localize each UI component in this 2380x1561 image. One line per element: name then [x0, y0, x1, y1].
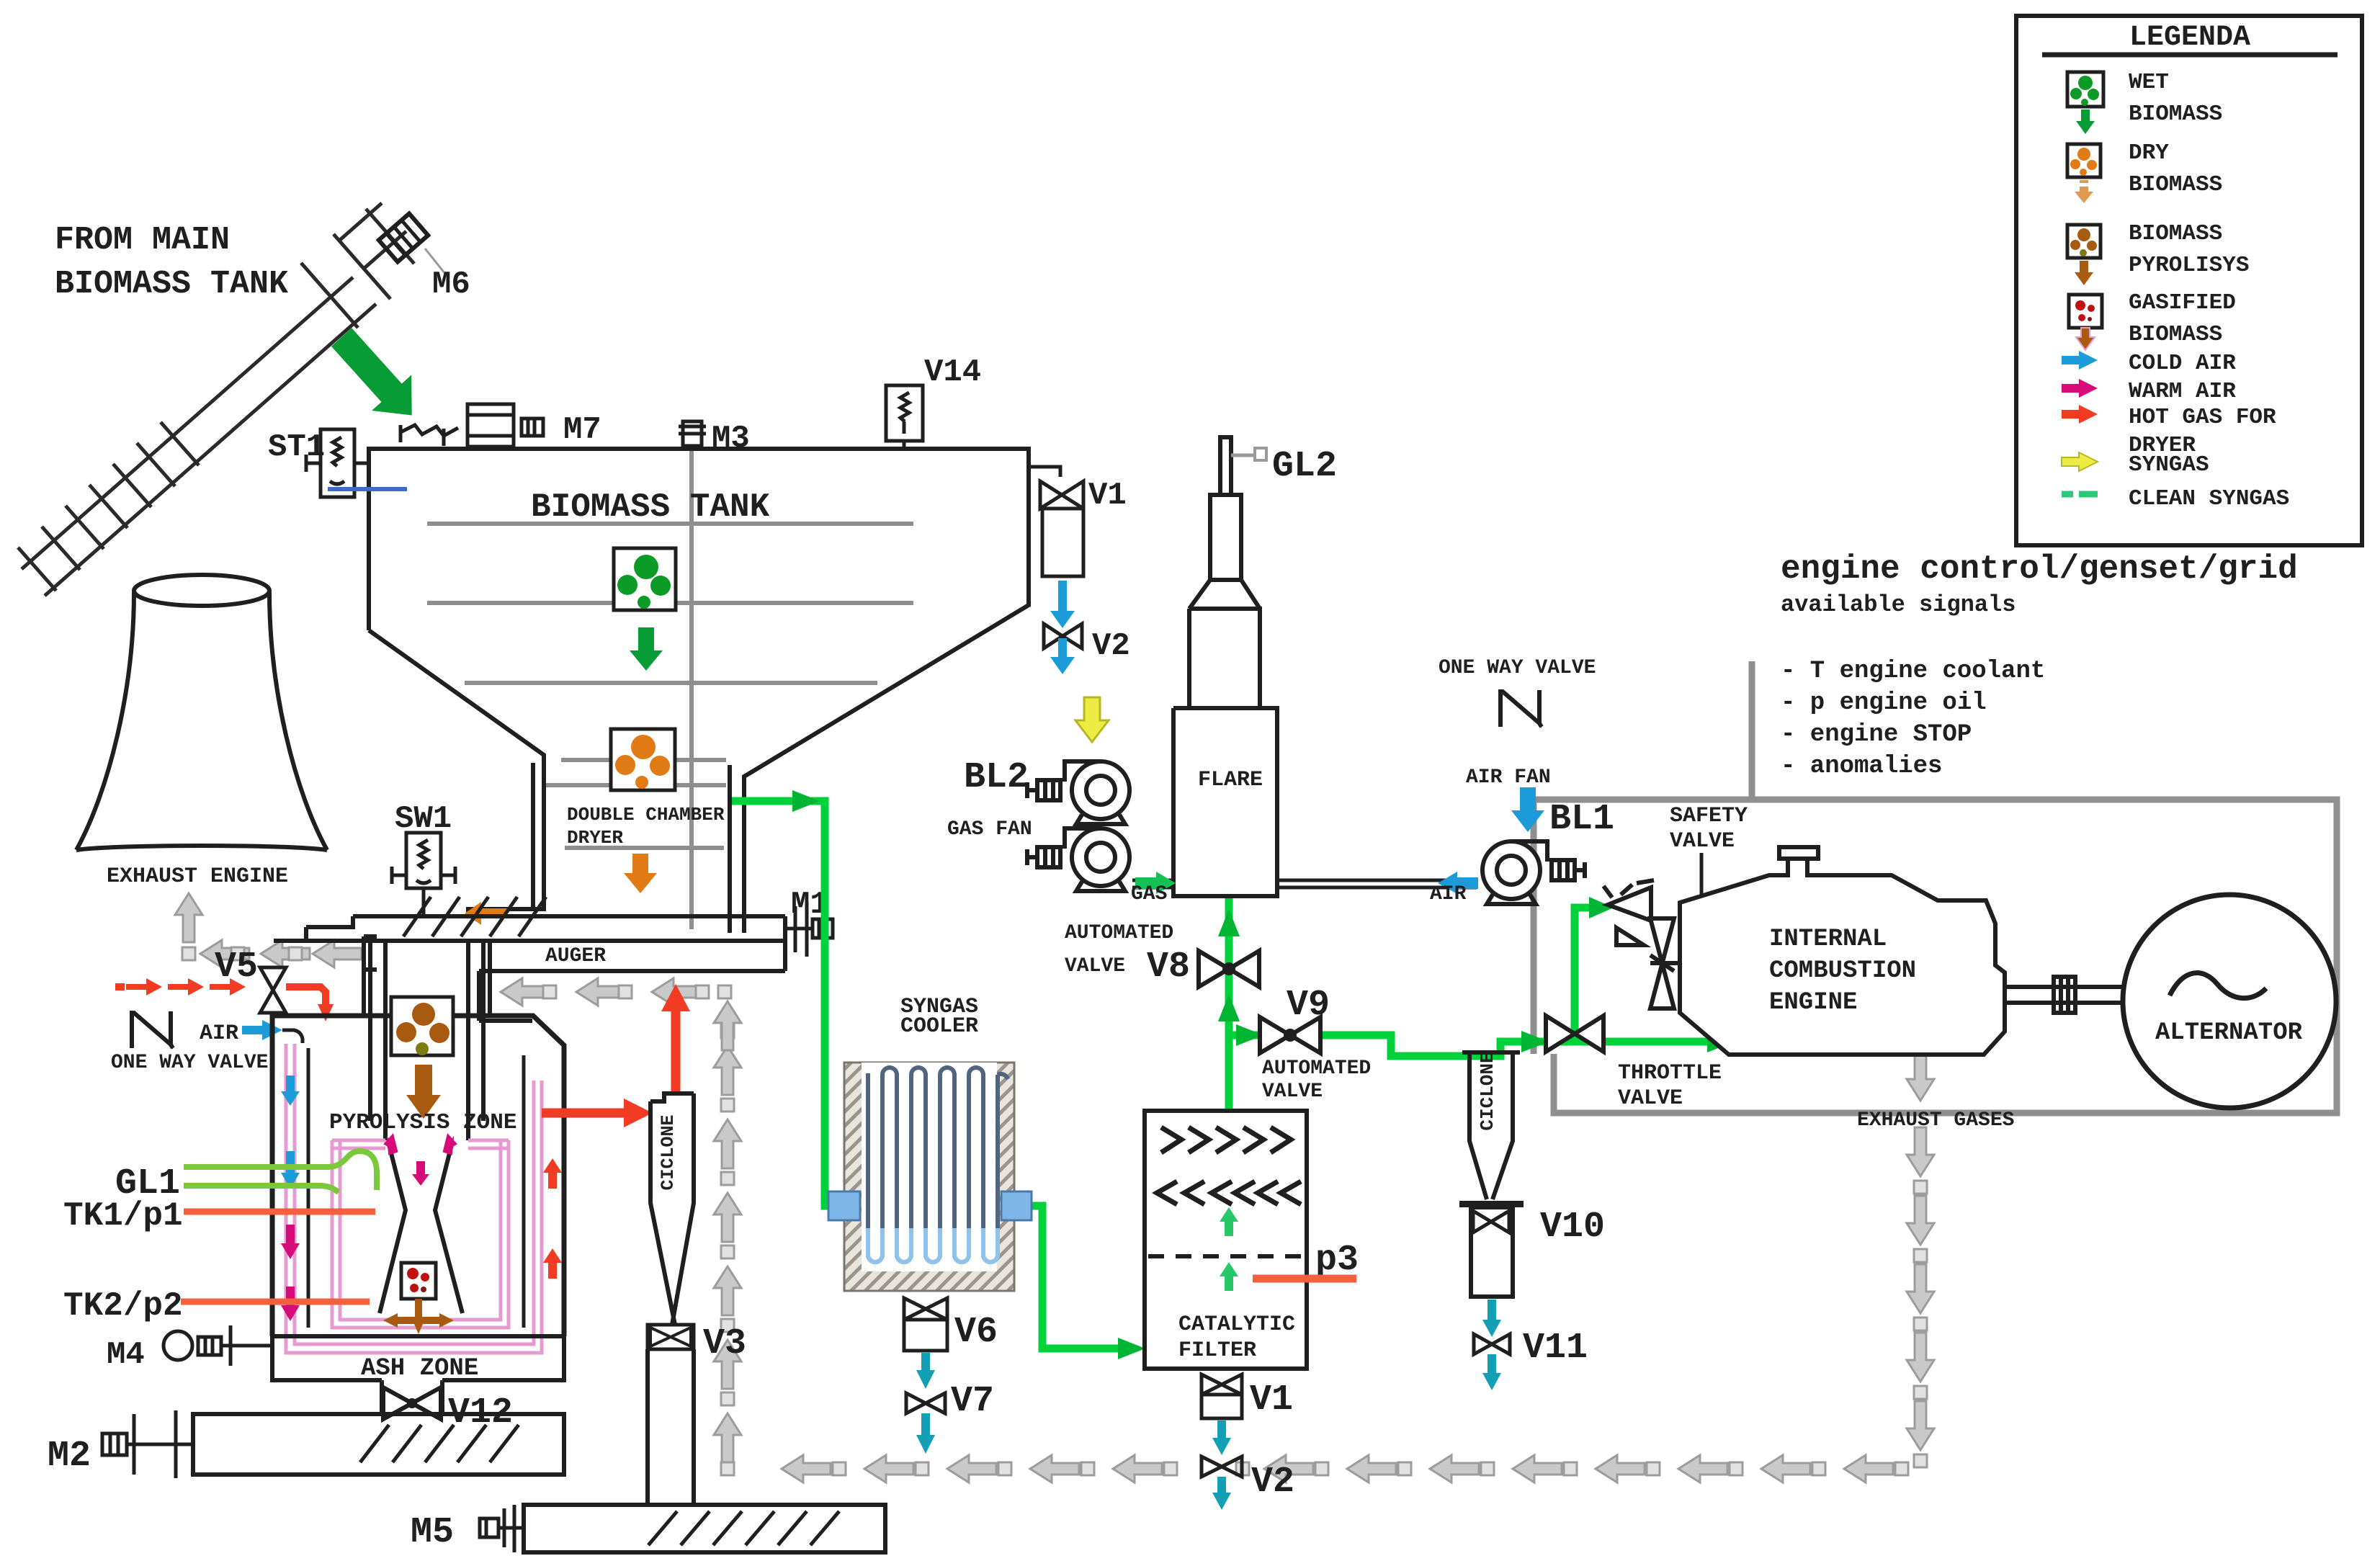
svg-text:SW1: SW1 [395, 801, 452, 837]
svg-text:V10: V10 [1540, 1207, 1605, 1248]
svg-text:INTERNAL: INTERNAL [1769, 926, 1887, 953]
svg-text:V9: V9 [1287, 985, 1330, 1026]
svg-text:VALVE: VALVE [1618, 1086, 1683, 1111]
svg-text:COOLER: COOLER [900, 1014, 978, 1039]
conveyor belt lines [22, 277, 376, 596]
auger hatch marks [403, 897, 546, 936]
svg-text:AUTOMATED: AUTOMATED [1262, 1057, 1371, 1080]
legend dry biomass icon [2067, 144, 2101, 203]
motor M4 [164, 1325, 272, 1366]
blower BL2 upper [1027, 761, 1129, 824]
svg-text:V11: V11 [1523, 1328, 1588, 1369]
biomass pyrolysis box [391, 997, 453, 1055]
valve V7 [906, 1393, 945, 1413]
svg-text:FROM MAIN: FROM MAIN [55, 222, 230, 259]
p3 sensor bar [1253, 1275, 1356, 1283]
svg-text:SYNGAS: SYNGAS [2129, 452, 2209, 478]
legend cold air arrow [2062, 351, 2098, 370]
wire: syngas branch through V9 to engine [1229, 1035, 1575, 1056]
wire: exhaust-gas dashed bottom row [721, 1455, 1908, 1482]
svg-text:M7: M7 [563, 412, 601, 448]
svg-text:AIR: AIR [1430, 883, 1467, 905]
wet biomass down arrow [630, 627, 663, 671]
pink jacket top stubs [332, 1140, 509, 1148]
svg-text:GL2: GL2 [1272, 446, 1337, 487]
M2 conveyor hatches [360, 1425, 519, 1462]
dry biomass down arrow in dryer [624, 854, 657, 893]
valve V12 [382, 1380, 442, 1419]
warm air arrows at venturi top [382, 1132, 457, 1186]
M3 agitator shaft [689, 449, 694, 929]
biomass tank outline [369, 449, 1029, 933]
wire: gray dashed run under auger [501, 978, 731, 1006]
reactor inner liner walls [308, 1048, 524, 1328]
wire: syngas riser to safety valve [1575, 908, 1595, 1042]
legend hot gas arrow [2062, 405, 2098, 424]
tank interior gray shelf lines [427, 524, 913, 848]
svg-text:PYROLYSIS ZONE: PYROLYSIS ZONE [329, 1110, 516, 1135]
ash conveyor M5 box [524, 1505, 885, 1552]
valve V1 at tank top right [1029, 467, 1083, 576]
hot-gas dashed line with arrows to V5 [115, 978, 246, 996]
svg-text:HOT GAS FOR: HOT GAS FOR [2129, 405, 2276, 430]
svg-text:CICLONE: CICLONE [1477, 1052, 1498, 1130]
filter chevrons left row [1157, 1181, 1301, 1204]
svg-text:WET: WET [2129, 70, 2169, 95]
svg-text:BIOMASS: BIOMASS [2129, 172, 2222, 197]
svg-text:V7: V7 [951, 1381, 994, 1422]
valve V10 [1459, 1201, 1524, 1297]
svg-text:- p engine oil: - p engine oil [1781, 689, 1987, 717]
drain arrow below exhaust V2 [1212, 1477, 1231, 1510]
valve V2 on tank vent [1044, 624, 1082, 648]
svg-text:BIOMASS TANK: BIOMASS TANK [531, 488, 770, 526]
svg-text:COMBUSTION: COMBUSTION [1769, 957, 1916, 985]
svg-text:ALTERNATOR: ALTERNATOR [2155, 1019, 2303, 1047]
svg-text:M3: M3 [712, 421, 750, 457]
svg-text:VALVE: VALVE [1262, 1081, 1323, 1103]
legend warm air arrow [2062, 379, 2098, 398]
legend biomass pyrolisys icon [2067, 225, 2101, 285]
throttle valve [1546, 1016, 1603, 1052]
svg-text:WARM AIR: WARM AIR [2129, 379, 2236, 404]
cyclone body [650, 1093, 694, 1325]
pressure switch ST1 [306, 429, 369, 497]
wire: exhaust-gas dashed left column going up [714, 1001, 741, 1462]
conveyor ladder rungs [18, 422, 199, 591]
svg-text:TK2/p2: TK2/p2 [63, 1287, 183, 1325]
control signals drop line [1749, 661, 1755, 800]
svg-text:VALVE: VALVE [1670, 829, 1735, 854]
safety valve [1603, 880, 1654, 945]
air inlet line to reactor [282, 1030, 303, 1043]
svg-text:V2: V2 [1092, 628, 1130, 664]
svg-text:M6: M6 [432, 267, 470, 303]
venturi hourglass [380, 1142, 462, 1313]
engine cooling fan symbol [1650, 918, 1691, 1008]
thermocouple line TK1/p1 [184, 1209, 375, 1215]
svg-text:V5: V5 [215, 947, 258, 988]
clean syngas arrows inside filter [1220, 1207, 1238, 1291]
svg-text:DOUBLE CHAMBER: DOUBLE CHAMBER [567, 804, 725, 826]
svg-text:V2: V2 [1251, 1462, 1294, 1503]
svg-text:EXHAUST GASES: EXHAUST GASES [1857, 1109, 2014, 1132]
air arrow into flare pipe [1438, 872, 1478, 894]
valve V9 [1260, 1017, 1320, 1053]
svg-text:VALVE: VALVE [1065, 955, 1125, 978]
engine filler cap [1779, 847, 1818, 859]
pressure switch SW1 [392, 833, 455, 916]
conveyor head crossbars [301, 203, 414, 328]
M5 conveyor hatches [648, 1511, 839, 1545]
svg-text:BIOMASS TANK: BIOMASS TANK [55, 266, 288, 303]
wire: syngas riser filter to flare [1225, 898, 1233, 1111]
motor M7 on tank roof [401, 404, 543, 447]
svg-text:engine control/genset/grid: engine control/genset/grid [1781, 550, 2298, 588]
valve V3 [648, 1325, 694, 1349]
legend box [2016, 16, 2362, 545]
svg-text:BIOMASS: BIOMASS [2129, 322, 2222, 347]
hot gas arrows in right jacket channel [543, 1158, 562, 1279]
wire: gray dashed run left of reactor to exhaust tower [182, 940, 362, 967]
blower BL2 lower [1027, 828, 1129, 891]
gasified biomass spreader arrows [383, 1299, 454, 1334]
engine-alternator shaft [2005, 977, 2129, 1013]
svg-text:M4: M4 [107, 1337, 145, 1373]
motor M3 symbol [679, 421, 706, 446]
motor M6 [379, 214, 429, 262]
cold air arrow into BL1 [1511, 787, 1544, 832]
svg-text:BIOMASS: BIOMASS [2129, 221, 2222, 246]
svg-text:ENGINE: ENGINE [1769, 989, 1857, 1016]
flare stack [1173, 437, 1277, 896]
svg-text:CLEAN SYNGAS: CLEAN SYNGAS [2129, 486, 2289, 511]
hot gas elbow into reactor [286, 987, 326, 1006]
gas lance GL2 [1231, 448, 1266, 460]
legend clean syngas dashes [2062, 491, 2098, 498]
svg-text:ASH ZONE: ASH ZONE [361, 1355, 478, 1382]
dry biomass box in dryer [611, 729, 675, 790]
cooler right port [1001, 1191, 1032, 1220]
pink heat jacket outer U [286, 1044, 542, 1353]
legend gasified biomass icon [2069, 295, 2102, 350]
wire: syngas pipe cooler to catalytic filter [1016, 1206, 1129, 1348]
pyrolysis brown down arrow [406, 1065, 441, 1119]
alternator sine wave [2170, 973, 2266, 998]
svg-text:SAFETY: SAFETY [1670, 804, 1748, 828]
svg-text:ST1: ST1 [268, 429, 325, 465]
reactor feed chute walls [364, 941, 490, 1140]
svg-text:COLD AIR: COLD AIR [2129, 351, 2236, 376]
cold air arrows in left jacket channel [281, 1075, 300, 1189]
alternator [2123, 895, 2336, 1108]
syngas yellow arrow [1075, 697, 1109, 742]
motor M1 [785, 902, 833, 957]
duct end bracket [364, 936, 377, 970]
thermocouple line TK2/p2 [181, 1299, 370, 1305]
svg-text:GAS FAN: GAS FAN [947, 818, 1032, 841]
svg-text:DRY: DRY [2129, 140, 2169, 166]
svg-text:AUTOMATED: AUTOMATED [1065, 922, 1173, 944]
drain arrow below V10 [1482, 1300, 1501, 1337]
cyclone 2 body [1462, 1052, 1520, 1199]
blower BL1 [1482, 841, 1585, 904]
drain arrow below V7 [916, 1413, 935, 1454]
wire: exhaust-gas dashed column below engine [1907, 1052, 1934, 1467]
svg-text:- engine STOP: - engine STOP [1781, 721, 1972, 748]
valve V11 [1474, 1334, 1510, 1354]
exhaust engine cooling tower [134, 575, 269, 606]
cooler left port [828, 1191, 860, 1220]
reactor outer shell [272, 1016, 564, 1336]
svg-text:V1: V1 [1088, 478, 1127, 514]
valve V6 [904, 1298, 947, 1351]
svg-text:- anomalies: - anomalies [1781, 753, 1942, 780]
svg-text:V3: V3 [703, 1323, 746, 1364]
svg-text:BL1: BL1 [1549, 799, 1614, 840]
valve V1 (filter drain) [1202, 1374, 1242, 1418]
legend wet biomass icon [2067, 72, 2103, 134]
ash zone box [272, 1336, 564, 1380]
cyclone drop pipe to M5 [648, 1349, 694, 1505]
svg-text:AUGER: AUGER [545, 945, 606, 967]
svg-text:AIR FAN: AIR FAN [1466, 766, 1551, 789]
svg-text:THROTTLE: THROTTLE [1618, 1061, 1722, 1086]
drain arrow below filter V1 [1212, 1421, 1231, 1455]
svg-text:M2: M2 [48, 1436, 91, 1477]
gas/air pipe under flare [1132, 880, 1477, 896]
hot gas pipe into cyclone [542, 1099, 653, 1127]
auger channel outline [274, 916, 785, 941]
valve V5 (vertical) [260, 967, 286, 1013]
safety valve stem [1684, 853, 1701, 903]
pink heat jacket inner U [332, 1140, 509, 1328]
cooler serpentine coil [868, 1068, 1008, 1262]
svg-text:V8: V8 [1147, 947, 1190, 988]
ash conveyor M2 box [193, 1414, 564, 1475]
one way valve (right) symbol [1500, 690, 1542, 727]
filter chevrons right row [1161, 1127, 1291, 1153]
svg-text:EXHAUST ENGINE: EXHAUST ENGINE [107, 864, 288, 889]
gas lance GL1 hook [184, 1151, 377, 1192]
auger bottom plate [479, 941, 785, 1021]
clean syngas arrow into flare pipe [1135, 872, 1176, 894]
svg-text:V14: V14 [924, 354, 981, 390]
genset gray enclosure [1534, 800, 2337, 1113]
cold air arrow below V2 [1050, 638, 1075, 674]
valve V8 [1199, 951, 1259, 987]
svg-text:CICLONE: CICLONE [658, 1114, 679, 1190]
svg-text:FILTER: FILTER [1178, 1338, 1256, 1363]
one way valve (left) symbol [132, 1011, 173, 1048]
svg-text:FLARE: FLARE [1198, 768, 1263, 792]
wire: syngas pipe dryer to cooler [732, 801, 836, 1206]
dry biomass left arrow to auger [465, 902, 507, 925]
svg-text:ONE WAY VALVE: ONE WAY VALVE [1439, 657, 1596, 679]
cold air arrow below V1 [1050, 581, 1075, 628]
cold air arrow into reactor [242, 1020, 282, 1040]
svg-text:GASIFIED: GASIFIED [2129, 290, 2236, 316]
wet biomass box in tank [614, 548, 676, 610]
ST1 blue sensor line [328, 487, 407, 491]
svg-text:PYROLISYS: PYROLISYS [2129, 253, 2249, 278]
svg-text:M5: M5 [411, 1512, 454, 1553]
filter vessel [1145, 1111, 1307, 1369]
svg-text:LEGENDA: LEGENDA [2129, 22, 2250, 54]
valve V14 (spring vent) [886, 385, 923, 449]
svg-text:available signals: available signals [1781, 591, 2016, 618]
cooler coil water bottoms [868, 1228, 998, 1262]
valve V2 on exhaust row [1202, 1457, 1242, 1477]
hot gas riser from cyclone top [661, 984, 690, 1095]
svg-text:V6: V6 [954, 1312, 998, 1353]
svg-text:BL2: BL2 [964, 757, 1029, 798]
drain arrow below V6 [916, 1353, 935, 1389]
svg-text:CATALYTIC: CATALYTIC [1178, 1312, 1295, 1337]
motor M2 [102, 1410, 193, 1478]
cooler hatched shell [844, 1063, 1014, 1291]
gasified biomass box [401, 1263, 436, 1299]
wire: syngas into engine [1575, 1038, 1714, 1046]
svg-text:TK1/p1: TK1/p1 [63, 1197, 183, 1235]
wire: gray arrow up to exhaust tower [175, 893, 202, 942]
legend syngas arrow [2062, 452, 2098, 471]
svg-text:DRYER: DRYER [567, 827, 623, 849]
svg-text:AIR: AIR [200, 1021, 238, 1046]
svg-text:ONE WAY VALVE: ONE WAY VALVE [111, 1052, 268, 1074]
svg-text:BIOMASS: BIOMASS [2129, 102, 2222, 127]
svg-text:GAS: GAS [1131, 883, 1167, 905]
motor M5 [480, 1505, 524, 1552]
drain arrow below V11 [1482, 1354, 1501, 1390]
warm air arrows in left jacket channel [281, 1225, 300, 1321]
svg-text:p3: p3 [1315, 1240, 1359, 1281]
wet biomass big green arrow [322, 319, 432, 433]
p3 sensor dashed level line [1148, 1254, 1305, 1258]
internal combustion engine body [1680, 859, 2005, 1055]
svg-text:V1: V1 [1250, 1379, 1293, 1421]
svg-text:- T engine coolant: - T engine coolant [1781, 658, 2045, 685]
